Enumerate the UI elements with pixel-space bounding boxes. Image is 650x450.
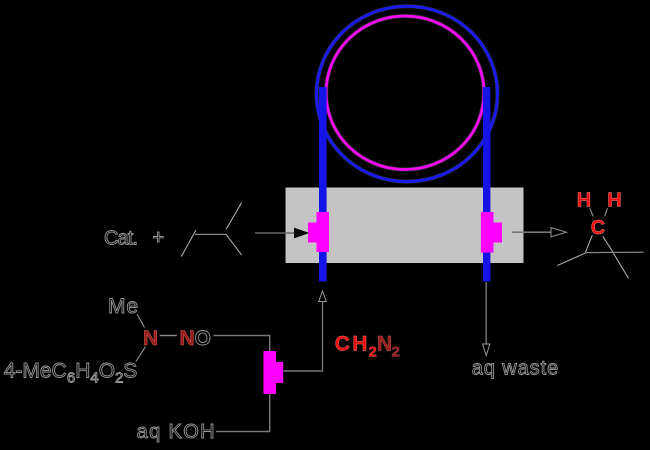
coil inner magenta loop halo bbox=[326, 16, 484, 170]
reactant alkene bond d bbox=[226, 234, 242, 255]
svg-text:S: S bbox=[123, 360, 137, 383]
svg-text:H: H bbox=[352, 333, 367, 356]
coil outer blue loop bbox=[317, 6, 498, 181]
methyl down-right bbox=[613, 253, 628, 278]
ring bond right bbox=[603, 236, 614, 252]
left fitting tab bbox=[308, 223, 317, 243]
pump fitting tab bbox=[276, 362, 283, 383]
coil inner magenta loop bbox=[326, 16, 484, 170]
right blue tube bbox=[483, 87, 490, 282]
CH2N2 arrow head (up) bbox=[319, 291, 327, 302]
svg-text:N: N bbox=[180, 327, 195, 350]
bond Me-N bbox=[137, 314, 145, 328]
svg-text:N: N bbox=[377, 333, 392, 356]
coil outer blue loop halo bbox=[317, 6, 498, 181]
svg-text:H: H bbox=[607, 190, 621, 212]
svg-text:2: 2 bbox=[392, 344, 400, 361]
product arrow shaft bbox=[512, 231, 553, 233]
svg-text:O: O bbox=[99, 360, 115, 383]
ring bond left bbox=[585, 235, 592, 253]
reactant alkene bond b bbox=[195, 233, 226, 235]
left blue tube bbox=[319, 87, 327, 282]
bond N-S bbox=[136, 347, 146, 362]
svg-text:C: C bbox=[335, 333, 350, 356]
aq waste arrow shaft bbox=[485, 282, 487, 345]
bond N-N bbox=[160, 335, 177, 337]
svg-text:C: C bbox=[591, 217, 605, 239]
reactant alkene bond c bbox=[226, 202, 242, 229]
svg-text:O: O bbox=[195, 327, 211, 350]
svg-text:aq KOH: aq KOH bbox=[137, 421, 215, 443]
feed arrow shaft bbox=[255, 232, 296, 234]
product arrow head bbox=[551, 228, 567, 237]
svg-text:aq waste: aq waste bbox=[472, 358, 559, 380]
pump fitting body bbox=[264, 351, 277, 394]
right fitting body bbox=[481, 212, 494, 253]
svg-text:4-MeC: 4-MeC bbox=[4, 360, 67, 383]
svg-text:2: 2 bbox=[115, 370, 123, 387]
CH2N2 arrow line bbox=[283, 302, 322, 372]
svg-text:2: 2 bbox=[369, 344, 377, 361]
ring bottom bond and methyl right bbox=[585, 251, 643, 253]
right fitting tab bbox=[494, 223, 503, 243]
bond H-C left bbox=[590, 208, 594, 216]
reactant alkene bond a bbox=[181, 230, 196, 257]
svg-text:H: H bbox=[577, 190, 591, 212]
bond H-C right bbox=[605, 208, 608, 216]
reactor block (gray housing) bbox=[286, 188, 524, 264]
svg-text:+: + bbox=[153, 227, 165, 249]
feed arrow head bbox=[294, 228, 310, 239]
pipe from O to pump bbox=[214, 336, 270, 352]
svg-text:Cat.: Cat. bbox=[104, 228, 138, 250]
svg-text:6: 6 bbox=[67, 370, 75, 387]
pipe from aq KOH to pump bbox=[216, 394, 270, 432]
svg-text:H: H bbox=[75, 360, 90, 383]
aq waste arrow head bbox=[483, 344, 490, 356]
left fitting body bbox=[317, 212, 330, 252]
svg-text:Me: Me bbox=[108, 295, 138, 318]
methyl down-left bbox=[557, 253, 585, 265]
svg-text:4: 4 bbox=[90, 370, 98, 387]
